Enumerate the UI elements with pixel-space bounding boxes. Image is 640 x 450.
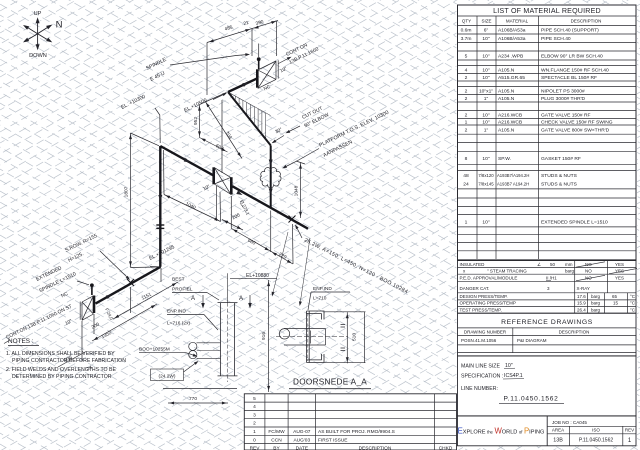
wire: SE run from EL10300 elbow to valve V2 (160, 146, 213, 175)
valve V3 flange (thick bar) (93, 296, 96, 314)
svg-text:ISO: ISO (592, 428, 600, 433)
svg-text:10": 10" (482, 75, 489, 81)
svg-text:DESIGN PRESS/TEMP.: DESIGN PRESS/TEMP. (460, 294, 508, 299)
svg-text:ENP.IND: ENP.IND (313, 286, 332, 292)
svg-text:DETERMINED BY PIPING CONTRACTO: DETERMINED BY PIPING CONTRACTOR (12, 374, 112, 380)
svg-text:LINE NUMBER:: LINE NUMBER: (461, 386, 498, 392)
svg-text:15.9: 15.9 (577, 301, 586, 306)
svg-text:2: 2 (465, 113, 468, 119)
svg-text:WN.FLANGE 150# RF SCH.40: WN.FLANGE 150# RF SCH.40 (541, 68, 609, 74)
svg-text:15: 15 (613, 301, 619, 306)
CONT ON arrow (top) (279, 58, 291, 64)
wire: steep cut-out slope pipe (228, 92, 271, 145)
white mask under revision table (244, 393, 457, 450)
field weld X1 (289, 216, 296, 223)
svg-text:PIPE SCH.40 (SUPPORT): PIPE SCH.40 (SUPPORT) (541, 28, 599, 34)
svg-text:AREA: AREA (552, 428, 564, 433)
svg-text:A193B7 A194.2H: A193B7 A194.2H (497, 182, 529, 187)
svg-text:L=716 (2x): L=716 (2x) (167, 321, 190, 327)
svg-text:1: 1 (253, 429, 256, 435)
svg-text:50: 50 (550, 262, 556, 267)
svg-text:NO: NO (585, 269, 592, 274)
flange pair on vertical pipe (156, 224, 164, 226)
support column (best profiel) (218, 303, 238, 376)
svg-text:°C: °C (630, 294, 636, 299)
svg-text:A106B/A53a: A106B/A53a (498, 28, 526, 34)
svg-text:(24.2W): (24.2W) (158, 373, 175, 379)
svg-text:510: 510 (352, 333, 358, 341)
svg-text:2: 2 (465, 89, 468, 95)
svg-text:OPERATING PRESS/TEMP: OPERATING PRESS/TEMP (460, 301, 516, 306)
svg-text:DOORSNEDE A_A: DOORSNEDE A_A (293, 378, 367, 387)
svg-text:1. ALL DIMENSIONS SHALL BE VER: 1. ALL DIMENSIONS SHALL BE VERIFIED BY (6, 351, 115, 357)
dim 1151 (113, 282, 178, 319)
dim 704 along slope (205, 101, 242, 159)
svg-text:STUDS & NUTS: STUDS & NUTS (541, 173, 578, 179)
svg-text:10": 10" (482, 156, 489, 162)
svg-text:DANGER CAT.: DANGER CAT. (460, 286, 490, 291)
wire: vertical pipe EL10300 drop (x=160) (159, 146, 161, 267)
svg-text:A216.WCB: A216.WCB (498, 113, 522, 119)
svg-text:2: 2 (465, 96, 468, 102)
svg-text:NOTES :: NOTES : (8, 338, 34, 345)
flow arrows on vertical drop (269, 160, 273, 166)
svg-text:SP.W.: SP.W. (498, 156, 511, 162)
svg-text:A105.N: A105.N (498, 96, 515, 102)
svg-text:JOB NO : CA045: JOB NO : CA045 (552, 420, 587, 425)
svg-text:PLUG 3000# THR'D: PLUG 3000# THR'D (541, 96, 586, 102)
base line and dim 770 (163, 388, 237, 390)
svg-text:DATE: DATE (296, 445, 308, 450)
svg-text:GASKET 150# RF: GASKET 150# RF (541, 156, 581, 162)
svg-text:X-RAY: X-RAY (577, 286, 590, 291)
svg-text:65: 65 (612, 294, 618, 299)
svg-text:BOO+10255M: BOO+10255M (139, 347, 170, 353)
label (24.2W) boxed with leader (151, 369, 184, 381)
svg-text:DESCRIPTION: DESCRIPTION (559, 329, 590, 334)
svg-text:P.11.0450.1562: P.11.0450.1562 (579, 438, 614, 444)
svg-text:REV: REV (250, 445, 261, 450)
svg-text:A: A (191, 296, 195, 302)
svg-text:II /H1: II /H1 (546, 276, 557, 281)
dim 916 (268, 280, 270, 392)
dim 1807 vertical (131, 133, 160, 268)
dim 336 (58, 352, 85, 367)
svg-text:4: 4 (253, 404, 256, 410)
svg-text:10"x1": 10"x1" (479, 89, 493, 95)
bracket C channel (307, 311, 325, 363)
svg-text:10": 10" (482, 54, 489, 60)
svg-text:952: 952 (193, 117, 199, 125)
svg-text:GATE VALVE 800# SW×THR'D: GATE VALVE 800# SW×THR'D (541, 128, 610, 134)
svg-text:STUDS & NUTS: STUDS & NUTS (541, 182, 578, 188)
svg-text:SPECTACLE BL 150# RF: SPECTACLE BL 150# RF (541, 75, 597, 81)
valve V3 extended spindle ball (90, 283, 94, 287)
svg-text:EL+10880: EL+10880 (246, 273, 269, 279)
svg-text:1048: 1048 (294, 185, 300, 196)
wire: top NE pipe run to valve V1 (228, 79, 257, 92)
svg-text:2: 2 (465, 75, 468, 81)
svg-text:7/8x120: 7/8x120 (478, 173, 494, 178)
svg-text:0: 0 (253, 437, 256, 443)
svg-text:UP: UP (34, 11, 42, 17)
bracket pipe (279, 329, 325, 346)
valve V2 box with X (214, 168, 230, 195)
svg-text:barg: barg (565, 269, 575, 274)
svg-text:CHKD: CHKD (439, 445, 453, 450)
svg-text:2: 2 (465, 128, 468, 134)
flow arrow on top run (242, 81, 249, 87)
svg-text:ELBOW 90° LR BW SCH.40: ELBOW 90° LR BW SCH.40 (541, 54, 603, 60)
svg-text:DRAWING NUMBER: DRAWING NUMBER (464, 329, 507, 334)
svg-text:barg: barg (591, 307, 601, 312)
svg-text:6": 6" (484, 28, 489, 34)
svg-text:10": 10" (482, 68, 489, 74)
svg-text:DESCRIPTION: DESCRIPTION (571, 19, 602, 24)
svg-text:BEST: BEST (172, 277, 185, 283)
valve V1 spindle ball (257, 57, 261, 61)
svg-text:N: N (56, 20, 63, 31)
dim 1352 (92, 304, 157, 341)
svg-text:CHECK VALVE 150# RF SWING: CHECK VALVE 150# RF SWING (541, 120, 613, 126)
compass down arrow (37, 34, 39, 49)
svg-text:INSULATED: INSULATED (460, 262, 486, 267)
svg-text:8: 8 (465, 156, 468, 162)
svg-text:TEST PRESS/TEMP.: TEST PRESS/TEMP. (460, 307, 502, 312)
svg-text:AS BUILT FOR PROJ. RMO/9904.S: AS BUILT FOR PROJ. RMO/9904.S (318, 429, 395, 435)
svg-text:7/8x145: 7/8x145 (478, 182, 494, 187)
svg-text:1": 1" (484, 128, 489, 134)
svg-text:MAIN LINE SIZE: MAIN LINE SIZE (461, 364, 500, 370)
wire: elbow at bottom of vertical to SW run (96, 267, 161, 304)
valve V1 flange (thick bar) (256, 69, 259, 87)
svg-text:10": 10" (482, 113, 489, 119)
svg-text:barg: barg (591, 294, 601, 299)
svg-text:A515.GR.65: A515.GR.65 (498, 75, 525, 81)
support pipes end circles (189, 342, 197, 350)
svg-text:POSN.41.M.1056: POSN.41.M.1056 (461, 338, 497, 343)
svg-text:10": 10" (482, 36, 489, 42)
dim 510 (325, 312, 366, 364)
svg-text:13B: 13B (553, 438, 563, 444)
svg-text:1807: 1807 (123, 186, 129, 197)
valve V3 spectacle blind X-box (80, 296, 93, 321)
dim 1040 (164, 150, 221, 222)
svg-text:LIST OF MATERIAL REQUIRED: LIST OF MATERIAL REQUIRED (493, 7, 601, 15)
BOM column lines (477, 16, 539, 259)
valve V2 spindle (221, 100, 223, 173)
svg-text:GATE VALVE 150# RF: GATE VALVE 150# RF (541, 113, 590, 119)
svg-text:REFERENCE DRAWINGS: REFERENCE DRAWINGS (501, 319, 593, 326)
svg-text:barg: barg (591, 301, 601, 306)
svg-text:PIPE SCH.40: PIPE SCH.40 (541, 36, 571, 42)
svg-text:AUG'03: AUG'03 (293, 437, 310, 443)
svg-text:PROFIEL: PROFIEL (172, 287, 193, 293)
compass NE arrow (38, 26, 51, 34)
svg-text:1: 1 (465, 120, 468, 126)
svg-text:FIRST ISSUE: FIRST ISSUE (318, 437, 348, 443)
svg-text:1": 1" (484, 96, 489, 102)
BOM column headers (462, 19, 602, 24)
leader from main run to section view (273, 232, 289, 295)
witness and 200 dim line at V2 (216, 186, 218, 221)
svg-text:10": 10" (482, 220, 489, 226)
svg-text:3.7m: 3.7m (461, 36, 472, 42)
svg-text:5: 5 (253, 396, 256, 402)
svg-text:AUG-07: AUG-07 (293, 429, 311, 435)
compass SE arrow (38, 34, 51, 42)
svg-text:DESCRIPTION: DESCRIPTION (359, 445, 392, 450)
svg-text:NIPOLET PS 3000#: NIPOLET PS 3000# (541, 89, 585, 95)
svg-text:A106B/A53a: A106B/A53a (498, 36, 526, 42)
slope reference line and hatching (228, 92, 271, 139)
dim 952 vertical (200, 92, 227, 137)
svg-text:REV: REV (625, 428, 634, 433)
svg-text:∠: ∠ (537, 262, 541, 267)
svg-text:A234 .WPB: A234 .WPB (498, 54, 523, 60)
weld ticks 11 (341, 325, 346, 351)
BOM horizontal lines (458, 16, 637, 259)
revision cloud on drop (260, 168, 281, 188)
svg-text:BY: BY (273, 445, 280, 450)
svg-text:A193B7/A194.2H: A193B7/A194.2H (497, 173, 529, 178)
svg-text:YES: YES (615, 262, 624, 267)
svg-text:EXTENDED SPINDLE L=1510: EXTENDED SPINDLE L=1510 (541, 220, 608, 226)
svg-text:48: 48 (463, 173, 469, 179)
white mask under right panel (457, 4, 638, 447)
svg-text:°C: °C (630, 307, 636, 312)
svg-text:P&I DIAGRAM: P&I DIAGRAM (517, 338, 547, 343)
svg-text:P.11.0450.1562: P.11.0450.1562 (503, 396, 558, 403)
wire: vertical drop from cut-out bend to tee (270, 145, 272, 208)
witness lines bottom left (82, 268, 161, 361)
svg-text:10": 10" (505, 363, 513, 369)
dim 1048 vertical (296, 161, 305, 218)
svg-text:ENP.IND: ENP.IND (167, 309, 186, 315)
svg-text:DOWN: DOWN (29, 53, 47, 59)
svg-text:26.4: 26.4 (577, 307, 586, 312)
svg-text:°C: °C (630, 301, 636, 306)
svg-text:A216.WCB: A216.WCB (498, 120, 522, 126)
svg-text:SIZE: SIZE (481, 19, 491, 24)
svg-text:A105.N: A105.N (498, 89, 515, 95)
svg-text:ICS4P.1: ICS4P.1 (504, 373, 523, 379)
dim 680 / 220 (231, 196, 293, 264)
svg-text:YES: YES (615, 276, 624, 281)
svg-text:A105.N: A105.N (498, 128, 515, 134)
svg-text:mm: mm (565, 262, 573, 267)
svg-text:2. FIELD WELDS AND OVERLENGTHS: 2. FIELD WELDS AND OVERLENGTHS TO BE (6, 367, 116, 373)
svg-text:5: 5 (465, 54, 468, 60)
svg-text:QTY: QTY (462, 19, 471, 24)
svg-text:4: 4 (465, 68, 468, 74)
flow arrow on vertical pipe (158, 195, 162, 201)
dim 608 (200, 138, 228, 153)
label 26.2W continuation with leader (294, 224, 299, 229)
svg-text:24: 24 (463, 182, 469, 188)
wire: main run valve V2 to X1 and beyond (232, 186, 308, 229)
svg-text:P.E.D. APPROVAL/MODULE: P.E.D. APPROVAL/MODULE (460, 276, 518, 281)
compass up arrow (37, 19, 39, 34)
svg-text:A105.N: A105.N (498, 68, 515, 74)
svg-text:FC/MW: FC/MW (268, 429, 285, 435)
svg-text:916: 916 (261, 332, 267, 340)
top dimension line 485/21/390 (207, 21, 278, 96)
svg-text:3: 3 (253, 412, 256, 418)
BOM table frame (458, 5, 637, 261)
label 30 deg with leader (273, 136, 285, 143)
svg-text:770: 770 (189, 396, 197, 402)
valve V1 spectacle blind X-box (258, 60, 278, 88)
svg-text:2: 2 (253, 421, 256, 427)
svg-text:0.6m: 0.6m (461, 28, 472, 34)
valve V2 flange bars (212, 167, 215, 184)
svg-text:A: A (239, 296, 243, 302)
BOM rows text (461, 28, 613, 226)
svg-text:MATERIAL: MATERIAL (506, 19, 529, 24)
compass SW arrow (25, 34, 38, 42)
svg-text:CCN: CCN (271, 437, 282, 443)
svg-text:L=710: L=710 (313, 296, 327, 302)
svg-text:1: 1 (465, 220, 468, 226)
svg-text:10": 10" (482, 120, 489, 126)
svg-text:17.6: 17.6 (577, 294, 586, 299)
svg-text:SPECIFICATION :: SPECIFICATION : (461, 374, 503, 380)
svg-text:" STEAM TRACING: " STEAM TRACING (487, 269, 527, 274)
field weld X2 (127, 279, 134, 286)
compass NW arrow (25, 26, 38, 34)
